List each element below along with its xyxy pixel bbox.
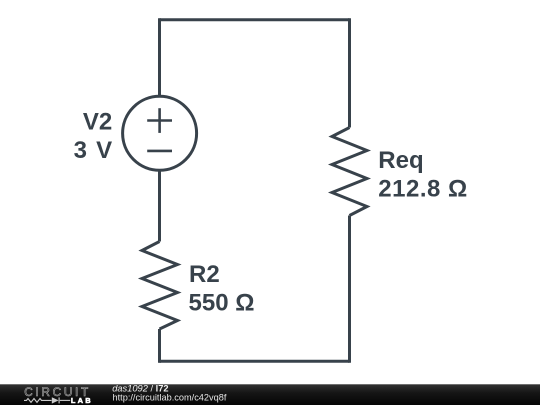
svg-text:212.8 Ω: 212.8 Ω — [378, 176, 467, 203]
resistor R2 — [142, 242, 178, 330]
svg-text:V2: V2 — [83, 109, 112, 136]
svg-text:http://circuitlab.com/c42vq8f: http://circuitlab.com/c42vq8f — [113, 393, 227, 403]
svg-text:R2: R2 — [189, 261, 220, 288]
svg-text:3 V: 3 V — [74, 137, 113, 164]
voltage source V2 — [123, 96, 197, 170]
wire V2 to R2 — [158, 170, 161, 241]
svg-text:550 Ω: 550 Ω — [189, 289, 255, 316]
wire Req to bottom rail — [348, 216, 351, 363]
wire R2 to bottom rail — [158, 329, 161, 363]
CircuitLab logo circuit line with resistor and diode — [24, 397, 70, 403]
svg-text:LAB: LAB — [71, 396, 93, 405]
label R2 value — [189, 261, 255, 316]
svg-text:Req: Req — [378, 147, 423, 174]
label V2 value — [74, 109, 113, 165]
label Req value — [378, 147, 467, 203]
wire right-top (top rail to Req) — [348, 18, 351, 127]
wire bottom — [160, 360, 350, 363]
wire left-top (top rail to V2 plus terminal) — [158, 18, 161, 96]
diode triangle — [52, 397, 59, 403]
resistor Req — [332, 128, 367, 216]
wire top — [160, 18, 350, 21]
